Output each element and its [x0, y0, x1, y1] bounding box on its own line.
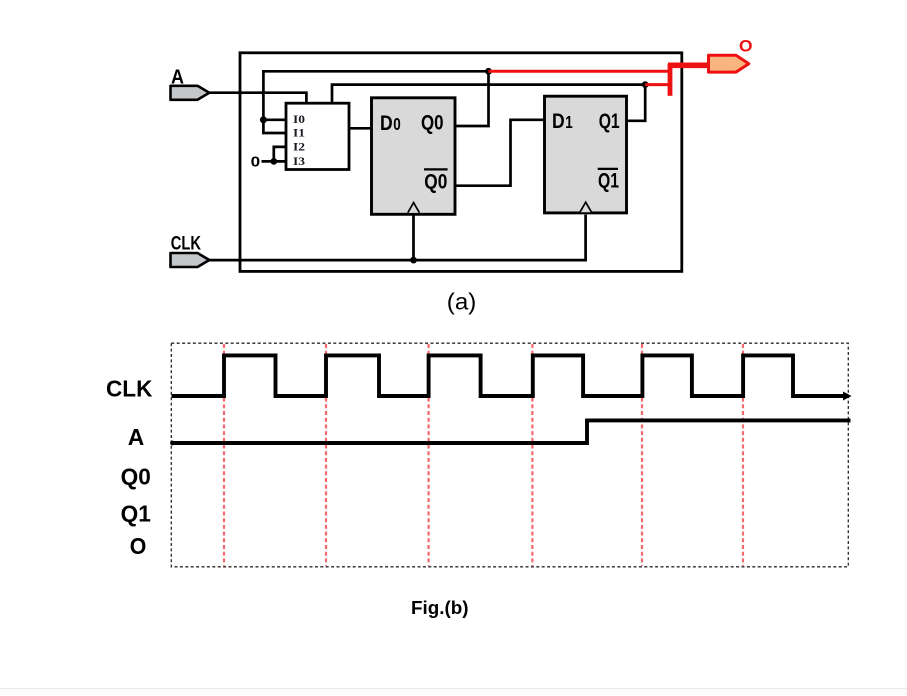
svg-text:I2: I2 [293, 142, 305, 154]
svg-text:CLK: CLK [106, 375, 152, 401]
svg-text:O: O [739, 38, 753, 56]
svg-text:O: O [130, 533, 147, 559]
svg-text:Fig.(b): Fig.(b) [411, 598, 469, 618]
svg-text:Q0: Q0 [421, 111, 444, 134]
svg-text:D: D [552, 110, 565, 133]
svg-text:0: 0 [251, 154, 261, 171]
svg-text:I1: I1 [293, 127, 305, 139]
svg-text:Q1: Q1 [598, 169, 619, 192]
svg-text:(a): (a) [447, 289, 477, 315]
svg-text:Q1: Q1 [121, 501, 151, 527]
svg-text:I3: I3 [293, 156, 305, 168]
svg-text:Q0: Q0 [424, 171, 447, 194]
svg-text:A: A [128, 424, 145, 450]
svg-text:1: 1 [565, 112, 573, 132]
svg-text:CLK: CLK [171, 232, 201, 254]
svg-text:0: 0 [393, 114, 401, 134]
svg-text:Q1: Q1 [599, 110, 620, 133]
svg-text:D: D [380, 112, 393, 135]
svg-text:A: A [171, 66, 184, 89]
svg-text:Q0: Q0 [121, 463, 151, 489]
svg-text:I0: I0 [293, 114, 305, 126]
